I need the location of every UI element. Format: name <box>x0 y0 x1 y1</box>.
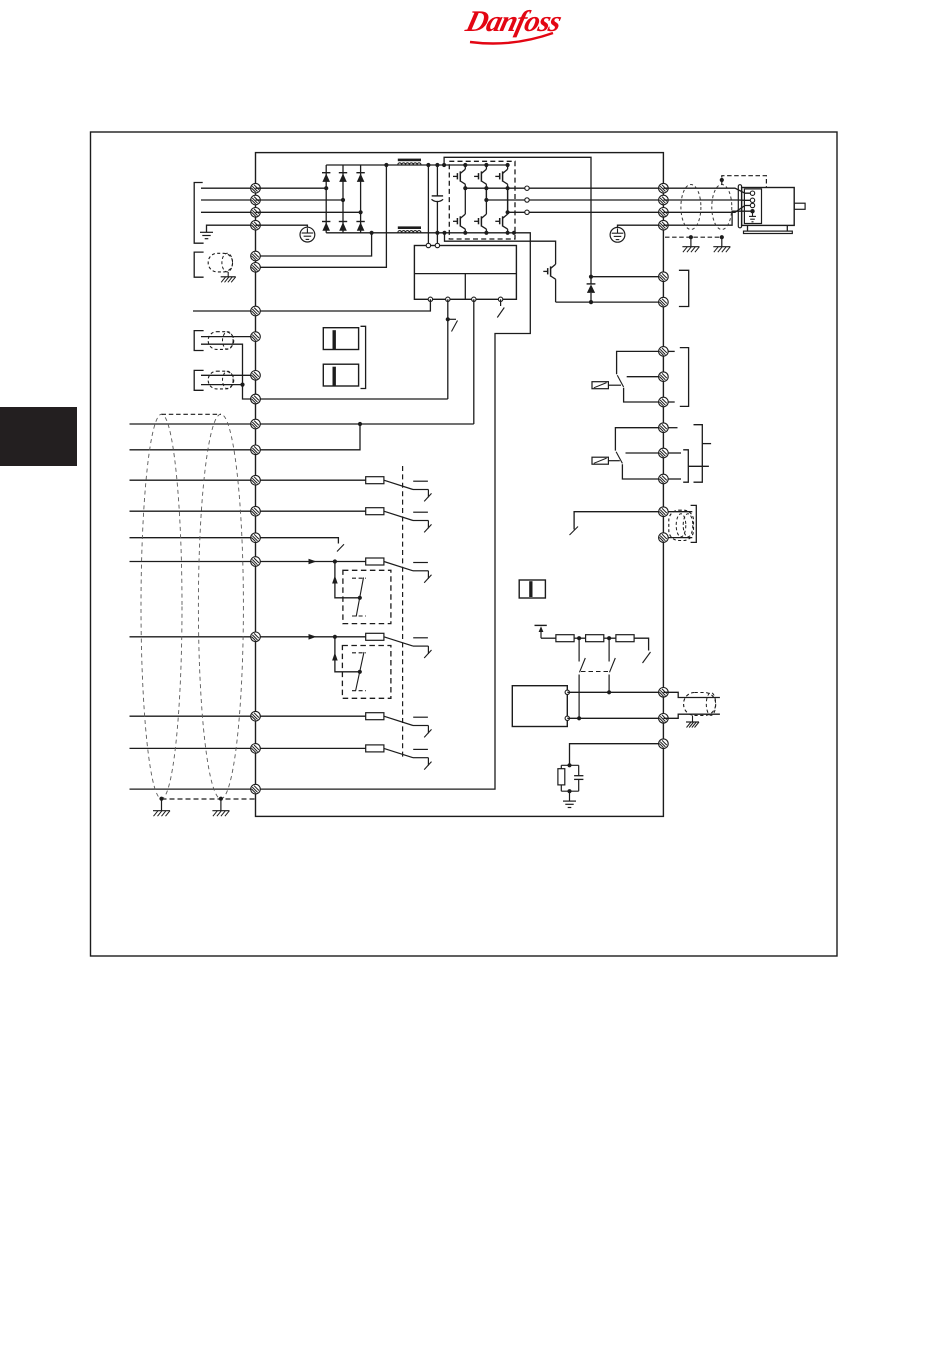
IGBT W upper <box>495 165 507 188</box>
shield to motor dashed link <box>722 176 767 188</box>
+5V supply symbol <box>535 625 547 638</box>
inverter dashed box <box>449 161 515 239</box>
terminal 99 PE <box>659 220 669 230</box>
inverter U output circle <box>525 186 529 190</box>
wire brake collector feed <box>445 233 556 264</box>
terminal 92 L2 <box>251 195 261 205</box>
wire terminal 13 internal <box>256 424 361 450</box>
wire terminal 19 internal <box>256 510 366 512</box>
relay2 outer tap <box>702 443 711 445</box>
protective earth symbol <box>300 227 315 242</box>
RC ground symbol <box>563 801 576 807</box>
junction term node1 <box>577 636 581 640</box>
wire relay2 coil <box>608 460 619 462</box>
wire DI29 diag <box>384 562 413 571</box>
wire chassis bus <box>256 233 531 789</box>
inverter W output circle <box>525 210 529 214</box>
wire analog2 shield <box>201 384 243 386</box>
wire L3 <box>201 211 256 213</box>
outer border frame <box>91 132 838 956</box>
terminal 95 PE <box>251 220 261 230</box>
wire field line terminal 37 <box>130 788 256 790</box>
terminal 03 relay1 <box>659 397 669 407</box>
pulse switch blade 33 <box>356 652 364 691</box>
shield ground stub 1 <box>690 237 692 246</box>
resistor term1 <box>556 635 574 642</box>
resistor term3 <box>616 635 634 642</box>
RS485 transceiver box <box>512 686 567 727</box>
wire smps pin2 down <box>447 299 449 399</box>
wire motor PE <box>663 211 750 225</box>
relay1 stub bottom <box>668 401 675 403</box>
wire L2 <box>201 199 256 201</box>
output protective earth symbol <box>610 227 625 242</box>
wire phase U node <box>465 187 525 189</box>
junction RC top <box>567 763 571 767</box>
rectifier leg 2 <box>342 165 344 233</box>
wire relay2 NO <box>622 464 663 479</box>
wire phase W output <box>529 211 663 213</box>
terminal 54 analog in <box>251 371 261 381</box>
junction shields <box>240 383 244 387</box>
motor cable shield front <box>681 185 701 230</box>
junction -DC col3 <box>506 231 510 235</box>
junction loadshare plus <box>384 163 388 167</box>
switch DI33 <box>413 638 432 658</box>
junction 33 branch <box>333 635 337 639</box>
arrow pulse 29 <box>332 576 338 584</box>
wire terminal 29 internal <box>256 561 366 563</box>
control shield ground A <box>153 811 170 817</box>
switch term B <box>609 638 615 692</box>
wire cap branch upper <box>436 165 438 196</box>
jumper stub top <box>668 511 692 513</box>
terminal 04 relay2 <box>659 423 669 433</box>
motor pin PE <box>750 209 754 213</box>
RS485 pin 68 <box>565 690 569 694</box>
relay2 inner tap <box>688 465 709 467</box>
wire jumper top <box>574 512 663 530</box>
wire terminal 37 internal <box>256 747 366 749</box>
IGBT V lower <box>474 188 486 233</box>
terminal 98 W <box>659 208 669 218</box>
analog in 2 bracket <box>194 370 203 390</box>
junction 29 branch <box>333 559 337 563</box>
wire phase U output <box>529 187 663 189</box>
wire field line terminal 33 <box>130 715 256 717</box>
SMPS divider vertical <box>464 274 466 300</box>
wire terminal 33 internal <box>256 636 366 638</box>
wire L1 to rectifier <box>256 187 327 189</box>
pulse contact bottom 33 <box>352 690 366 692</box>
relay2 stub mid <box>668 452 681 454</box>
junction 12-13 <box>358 422 362 426</box>
wire RS485 shield right 69 <box>663 714 720 718</box>
shield earth dashed wire <box>665 236 722 238</box>
IGBT V upper <box>474 165 486 188</box>
analog in 1 cable shield <box>208 332 234 350</box>
wire smps +DC drop <box>427 165 429 246</box>
terminal 37 safe stop <box>251 744 261 754</box>
brake resistor bracket <box>679 270 689 306</box>
jumper stub bottom <box>668 537 692 539</box>
switch DI27 <box>337 544 344 551</box>
junction U node <box>463 186 467 190</box>
terminal 36 24V ext + <box>251 394 261 404</box>
resistor DI18 <box>366 477 384 484</box>
terminal 82 brake + <box>659 297 669 307</box>
relay1 bracket <box>680 348 689 407</box>
terminal 12 +24V <box>251 419 261 429</box>
pulse contact bottom 29 <box>352 615 366 617</box>
relay1 contact blade <box>617 375 623 387</box>
frequency converter enclosure box <box>256 153 664 817</box>
analog in 1 bracket <box>194 331 203 351</box>
wire PE internal <box>256 225 308 227</box>
diode D2 <box>339 173 347 182</box>
control shield top dashed <box>162 413 221 415</box>
load share shield ground <box>221 277 236 283</box>
svg-text:Danfoss: Danfoss <box>462 4 565 37</box>
switch mode power supply box <box>414 246 516 300</box>
junction +DC brake feed <box>442 163 446 167</box>
junction W emitter <box>506 186 510 190</box>
SMPS pin bottom2 <box>446 297 450 301</box>
junction -DC col2 <box>484 231 488 235</box>
junction L3-leg3 <box>359 210 363 214</box>
wire smps pin2 stub <box>436 233 438 246</box>
brake freewheel diode <box>587 277 596 302</box>
terminal 02 relay1 <box>659 372 669 382</box>
switch DI37 <box>413 749 432 769</box>
SMPS pin bottom3 <box>472 297 476 301</box>
motor pin W <box>750 203 754 207</box>
motor feet <box>744 225 793 233</box>
terminal 61 shield <box>251 784 261 794</box>
terminal 91 L1 <box>251 183 261 193</box>
junction -DC exit <box>512 231 516 235</box>
SMPS pin bottom1 <box>428 297 432 301</box>
black side tab <box>0 407 77 466</box>
wire terminal 27 internal <box>256 538 339 544</box>
wire DI37 diag <box>384 748 413 757</box>
terminal 06 relay2 <box>659 474 669 484</box>
wire DI20 diag <box>384 716 413 725</box>
terminal 55 analog com <box>251 394 261 404</box>
wire terminal 54 <box>201 374 256 376</box>
RFI switch box 1 <box>323 328 358 350</box>
pulse branch 29 <box>335 562 360 598</box>
junction +DC smps branch <box>426 163 430 167</box>
control shield ground stub B <box>220 799 222 811</box>
junction -DC col1 <box>463 231 467 235</box>
wire RC ground <box>569 791 571 801</box>
wire phase W node <box>508 188 525 212</box>
wire termination feed <box>541 637 556 639</box>
junction +DC cap branch <box>435 163 439 167</box>
analog in 2 cable shield <box>208 371 234 389</box>
motor pin V <box>750 198 754 202</box>
control cable shield ellipse A <box>141 414 182 799</box>
motor flange <box>738 185 741 228</box>
wire field line terminal 13 <box>130 449 256 451</box>
terminal 01 relay1 <box>659 347 669 357</box>
diode D5 <box>339 222 347 231</box>
wire smps pin3 down <box>473 299 475 424</box>
rectifier leg 3 <box>360 165 362 233</box>
wire +DC top link <box>444 157 591 276</box>
wire terminal 61 internal <box>570 744 664 766</box>
switch DI18 <box>413 481 432 501</box>
wire +DC rail <box>326 164 507 166</box>
wire output earth <box>618 225 664 227</box>
junction shield link <box>720 178 724 182</box>
junction L2-leg2 <box>341 198 345 202</box>
terminal 53 analog in <box>251 332 261 342</box>
switch term A <box>579 638 585 718</box>
terminal 55b <box>659 533 669 543</box>
wire term2-3 <box>604 637 616 639</box>
wire relay1 NC <box>627 376 664 378</box>
wire phase V node <box>486 188 524 200</box>
junction V node <box>484 198 488 202</box>
terminal 93 L3 <box>251 208 261 218</box>
RS485 shield ground stub <box>692 715 694 721</box>
SMPS pin bottom4 <box>498 297 502 301</box>
shield ground 2 <box>713 247 730 253</box>
diode D1 <box>322 173 330 182</box>
switch smps pin4 <box>497 299 504 317</box>
PNP NPN dashed selector line <box>402 466 404 757</box>
wire brake emitter <box>556 301 664 303</box>
terminal 96 U <box>659 183 669 193</box>
relay2 stub bottom <box>668 478 681 480</box>
terminal 97 V <box>659 195 669 205</box>
relay2 coil <box>592 457 608 464</box>
resistor DI37 <box>366 745 384 752</box>
wire relay2 NC <box>626 452 664 454</box>
pulse switch blade 29 <box>356 578 363 617</box>
switch termination <box>643 652 651 663</box>
control cable shield ellipse B <box>198 414 243 799</box>
rectifier leg 1 <box>325 165 327 233</box>
wire -DC rail <box>326 232 514 234</box>
junction L1-leg1 <box>324 186 328 190</box>
junction brake diode low <box>589 300 593 304</box>
wire motor U <box>663 188 750 193</box>
junction pin2 switch <box>446 317 450 321</box>
wire shields to terminal 55 <box>243 385 256 399</box>
terminal 69 RS485 N <box>659 714 669 724</box>
resistor DI33 <box>366 633 384 640</box>
terminal 61 bus shield <box>659 739 669 749</box>
wire terminal 18 internal <box>256 479 366 481</box>
wire relay1 NO <box>624 388 664 402</box>
motor pin U <box>750 191 754 195</box>
junction shield 2 <box>720 235 724 239</box>
resistor DI29 <box>366 558 384 565</box>
RFI bracket <box>361 326 366 388</box>
resistor DI19 <box>366 508 384 515</box>
terminal 89 loadshare + <box>251 263 261 273</box>
terminal 27 digital in <box>251 533 261 543</box>
pulse switch box 33 <box>342 646 391 699</box>
wire RS485 shield right 68 <box>663 692 720 697</box>
relay1 stub top <box>668 350 675 352</box>
switch link dashed <box>581 671 608 673</box>
relay1 coil <box>592 382 608 389</box>
analog output box <box>519 580 545 598</box>
wire term3 end <box>634 638 649 650</box>
junction W node <box>506 210 510 214</box>
resistor DI20 <box>366 713 384 720</box>
junction term B 68 <box>607 690 611 694</box>
junction pulse 29 <box>358 596 362 600</box>
load share shield ground wire <box>227 272 229 277</box>
RS485 cable shield <box>684 693 716 716</box>
terminal 19 digital in <box>251 506 261 516</box>
control shield dashed bus <box>162 798 256 800</box>
jumper cable shield <box>669 510 694 540</box>
IGBT U upper <box>453 165 465 188</box>
diode D4 <box>322 222 330 231</box>
DC choke upper <box>398 159 421 165</box>
arrow terminal 29 <box>309 559 317 565</box>
switch jumper <box>570 527 579 536</box>
resistor term2 <box>586 635 604 642</box>
pulse switch box 29 <box>343 570 391 623</box>
diode D3 <box>356 173 364 182</box>
terminal 35 24V ext - <box>251 306 261 316</box>
wire terminal 81 <box>591 276 663 278</box>
wire motor W <box>663 206 750 213</box>
wire relay2 common <box>615 428 663 451</box>
junction +DC col2 <box>484 163 488 167</box>
IGBT U lower <box>453 188 465 233</box>
wire relay1 common <box>617 351 664 374</box>
relay2 inner bracket <box>683 450 688 482</box>
junction term node2 <box>607 636 611 640</box>
wire terminal 68 <box>567 691 663 693</box>
shield ground stub 2 <box>721 237 723 246</box>
terminal 68 RS485 P <box>659 688 669 698</box>
terminal 13 +24V <box>251 445 261 455</box>
wire terminal 69 <box>567 717 663 719</box>
jumper bracket <box>691 505 697 542</box>
junction -DC brake tap <box>442 231 446 235</box>
wire terminal 53 <box>201 336 256 338</box>
relay2 stub top <box>668 427 677 429</box>
SMPS pin top2 <box>435 243 439 247</box>
DC choke lower <box>398 226 421 232</box>
relay2 outer bracket <box>694 425 703 483</box>
load share bracket <box>194 252 203 277</box>
wire DI18 diag <box>384 480 413 489</box>
junction -DC cap branch <box>435 231 439 235</box>
pulse branch 33 <box>335 637 360 672</box>
IGBT W lower <box>495 188 507 233</box>
wire field line terminal 20 <box>130 747 256 749</box>
terminal 50 +10V <box>659 507 669 517</box>
terminal 05 relay2 <box>659 448 669 458</box>
wire PE input <box>207 225 256 232</box>
wire L1 <box>201 187 256 189</box>
wire terminal 88 <box>256 233 372 256</box>
motor terminal box <box>744 189 761 224</box>
load share cable shield <box>208 253 232 272</box>
RFI switch box 2 <box>323 364 358 386</box>
wire field line terminal 29 <box>130 561 256 563</box>
wire term1-2 <box>574 637 586 639</box>
wire relay1 coil <box>608 384 621 386</box>
junction term A 69 <box>577 716 581 720</box>
junction RC bottom <box>567 789 571 793</box>
wire L3 to rectifier <box>256 211 361 213</box>
RC shield network <box>558 765 584 791</box>
terminal 88 loadshare - <box>251 251 261 261</box>
brake IGBT <box>543 264 555 302</box>
wire DI19 diag <box>384 511 413 520</box>
switch DI20 <box>413 717 432 737</box>
junction control shield B <box>219 797 223 801</box>
mains input bracket <box>194 183 203 244</box>
control shield ground stub A <box>161 799 163 811</box>
motor pin ground <box>749 211 756 222</box>
wire terminal 20 internal <box>256 715 366 717</box>
junction shield 1 <box>689 235 693 239</box>
junction pulse 33 <box>358 670 362 674</box>
wire field line terminal 19 <box>130 510 256 512</box>
pulse contact top 29 <box>352 577 366 579</box>
arrow terminal 33 <box>309 634 317 640</box>
PE input ground <box>200 232 213 238</box>
switch 24V backup <box>448 319 458 331</box>
motor shaft <box>794 203 805 209</box>
RS485 pin 69 <box>565 716 569 720</box>
wire terminal 36 <box>256 398 448 400</box>
relay2 contact blade <box>616 452 622 464</box>
wire terminal 24V external <box>193 299 430 311</box>
terminal 29 digital in <box>251 557 261 567</box>
wire terminal 12 internal <box>256 423 474 425</box>
wire analog1 shield <box>201 344 243 384</box>
wire field line terminal 27 <box>130 537 256 539</box>
motor cable shield rear <box>712 185 732 230</box>
terminal 18 digital in <box>251 475 261 485</box>
terminal 81 brake - <box>659 272 669 282</box>
capacitor DC link <box>432 196 444 233</box>
junction control shield A <box>159 797 163 801</box>
wire field line terminal 18 <box>130 479 256 481</box>
pulse contact top 33 <box>352 652 366 654</box>
SMPS divider horizontal <box>414 273 516 275</box>
terminal 32 digital in <box>251 632 261 642</box>
RS485 shield ground <box>686 722 699 728</box>
terminal 20 common <box>251 711 261 721</box>
junction load-share minus <box>370 231 374 235</box>
wire field line terminal 32 <box>130 636 256 638</box>
wire DI33 diag <box>384 637 413 646</box>
junction +DC col3 <box>506 163 510 167</box>
control shield ground B <box>212 811 229 817</box>
junction +DC col1 <box>463 163 467 167</box>
wire terminal 89 <box>256 165 387 267</box>
diode D6 <box>356 222 364 231</box>
SMPS pin top1 <box>426 243 430 247</box>
junction brake terminal 81 <box>589 275 593 279</box>
inverter V output circle <box>525 198 529 202</box>
motor M body <box>742 188 795 226</box>
